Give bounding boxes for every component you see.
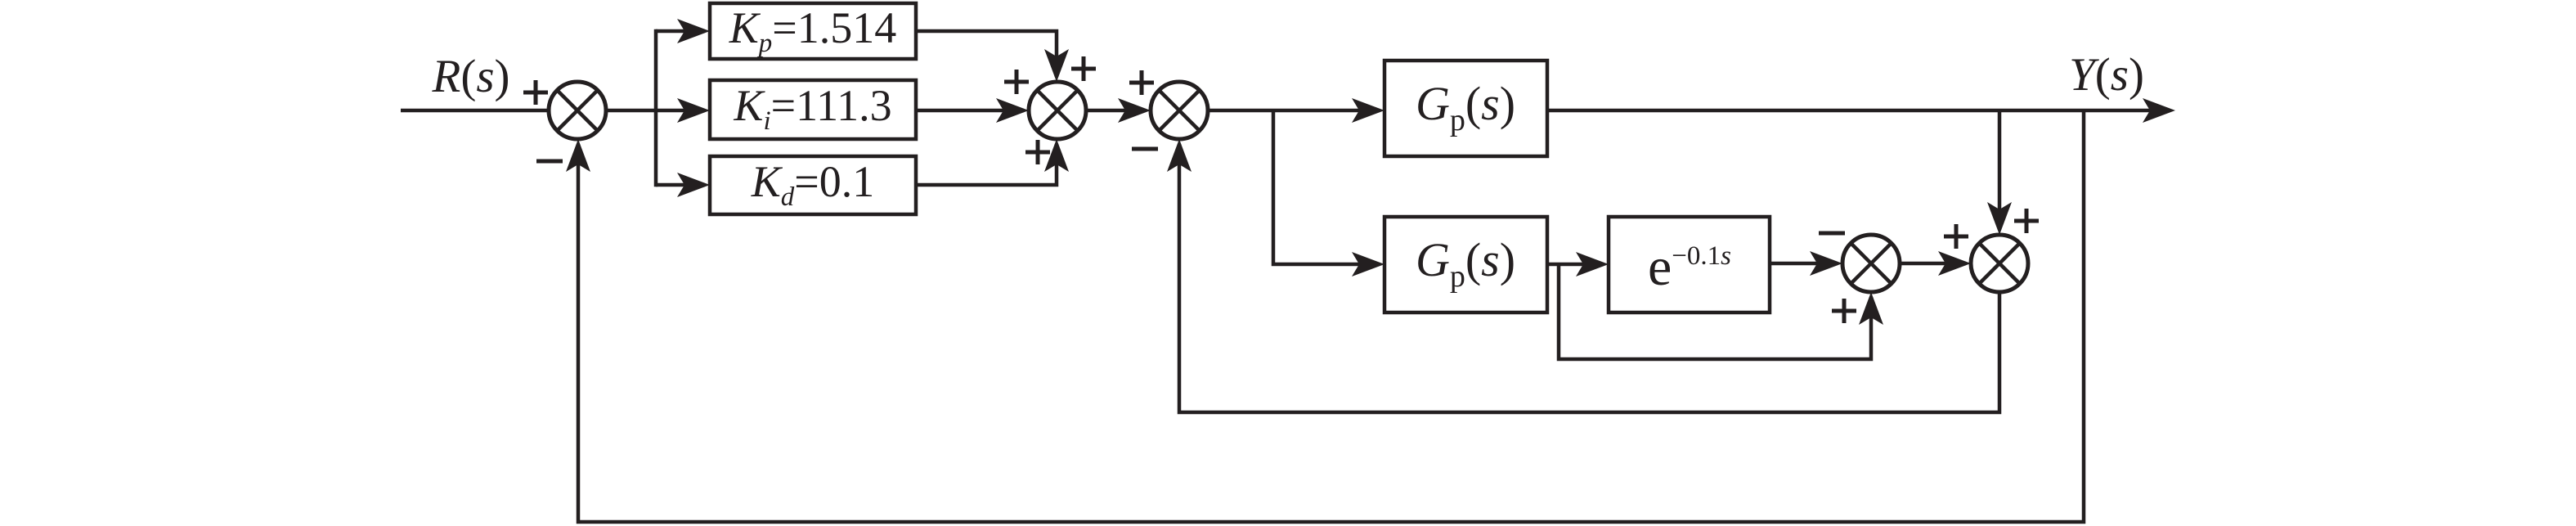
block Gp(s) bottom <box>1384 217 1547 312</box>
wire Kd output to summing junction S2 bottom <box>916 144 1057 185</box>
wire input R(s) to summing junction S1 <box>401 109 550 113</box>
svg-text:Y(s): Y(s) <box>2069 49 2144 101</box>
block Ki=111.3 <box>710 80 916 139</box>
minus sign at S4 left input <box>1819 232 1845 236</box>
summing junction S2 <box>1029 82 1086 139</box>
wire S5 output down and left and up into S3 minus input <box>1179 144 1999 412</box>
summing junction S3 <box>1151 82 1208 139</box>
summing junction S4 <box>1842 235 1900 292</box>
arrowhead up into S4 bottom <box>1859 292 1883 325</box>
wire bypass branch around delay to S4 plus input <box>1559 264 1871 359</box>
plus sign at S2 top input <box>1071 56 1096 81</box>
plus sign at S4 bottom input <box>1832 299 1856 323</box>
wire branch vertical for Kp and Kd <box>654 29 658 187</box>
wire branch to Kp block <box>656 29 705 34</box>
wire branch down to Gp bottom block <box>1273 110 1380 264</box>
arrowhead into delay block <box>1576 252 1609 276</box>
svg-text:R(s): R(s) <box>432 51 510 102</box>
minus sign at S1 feedback input <box>536 160 563 164</box>
arrowhead into Kp block <box>677 19 710 43</box>
wire S3 output to Gp top block <box>1208 109 1380 113</box>
arrowhead into S3 left <box>1118 98 1151 123</box>
wire branch from Y line down into S5 top <box>1998 110 2002 230</box>
wire branch to Kd block <box>656 183 705 187</box>
wire S2 output to summing junction S3 <box>1086 109 1146 113</box>
arrowhead Y(s) output <box>2143 98 2175 123</box>
svg-text:Gp(s): Gp(s) <box>1416 77 1515 137</box>
arrowhead into S5 left <box>1938 251 1971 276</box>
arrowhead into Kd block <box>677 173 710 197</box>
svg-text:Kp=1.514: Kp=1.514 <box>729 3 897 58</box>
arrowhead into Gp top block <box>1352 98 1384 123</box>
plus sign at S5 left input <box>1944 224 1968 249</box>
svg-text:Ki=111.3: Ki=111.3 <box>733 81 891 136</box>
wire Gp bottom output to delay block <box>1547 263 1604 267</box>
block Kd=0.1 <box>710 156 916 214</box>
arrowhead down into S5 top <box>1987 202 2012 235</box>
wire delay output to S4 left <box>1770 262 1838 266</box>
plus sign at S5 top input <box>2014 209 2039 233</box>
summing junction S5 <box>1971 235 2028 292</box>
summing junction S1 <box>549 82 606 139</box>
plus sign at S2 bottom input <box>1025 140 1050 164</box>
wire S4 output to S5 <box>1900 262 1966 266</box>
arrowhead up into S2 bottom <box>1044 139 1069 172</box>
svg-text:Kd=0.1: Kd=0.1 <box>751 157 875 212</box>
arrowhead down into S2 top <box>1044 49 1069 82</box>
arrowhead into Ki block <box>677 98 710 123</box>
block Gp(s) top <box>1384 61 1547 156</box>
arrowhead up into S1 bottom <box>566 139 590 172</box>
wire outer feedback from Y line down, across bottom, and up into S1 minus input <box>578 110 2084 522</box>
arrowhead up into S3 bottom <box>1167 139 1192 172</box>
minus sign at S3 bottom input <box>1132 147 1158 151</box>
plus sign at S3 left input <box>1129 70 1154 95</box>
svg-text:Gp(s): Gp(s) <box>1416 233 1515 294</box>
block Kp=1.514 <box>710 3 916 59</box>
wire Ki output to summing junction S2 left <box>916 109 1024 113</box>
arrowhead into S4 left <box>1810 251 1842 276</box>
arrowhead into Gp bottom block <box>1352 252 1384 276</box>
wire S1 output to Ki block <box>604 109 705 113</box>
plus sign at S1 input <box>523 80 548 105</box>
arrowhead into S2 left <box>996 98 1029 123</box>
wire Kp output to summing junction S2 top <box>916 31 1057 77</box>
plus sign at S2 left input <box>1004 70 1029 94</box>
wire Gp top output to Y(s) <box>1547 109 2169 113</box>
block e^-0.1s delay <box>1609 217 1770 312</box>
